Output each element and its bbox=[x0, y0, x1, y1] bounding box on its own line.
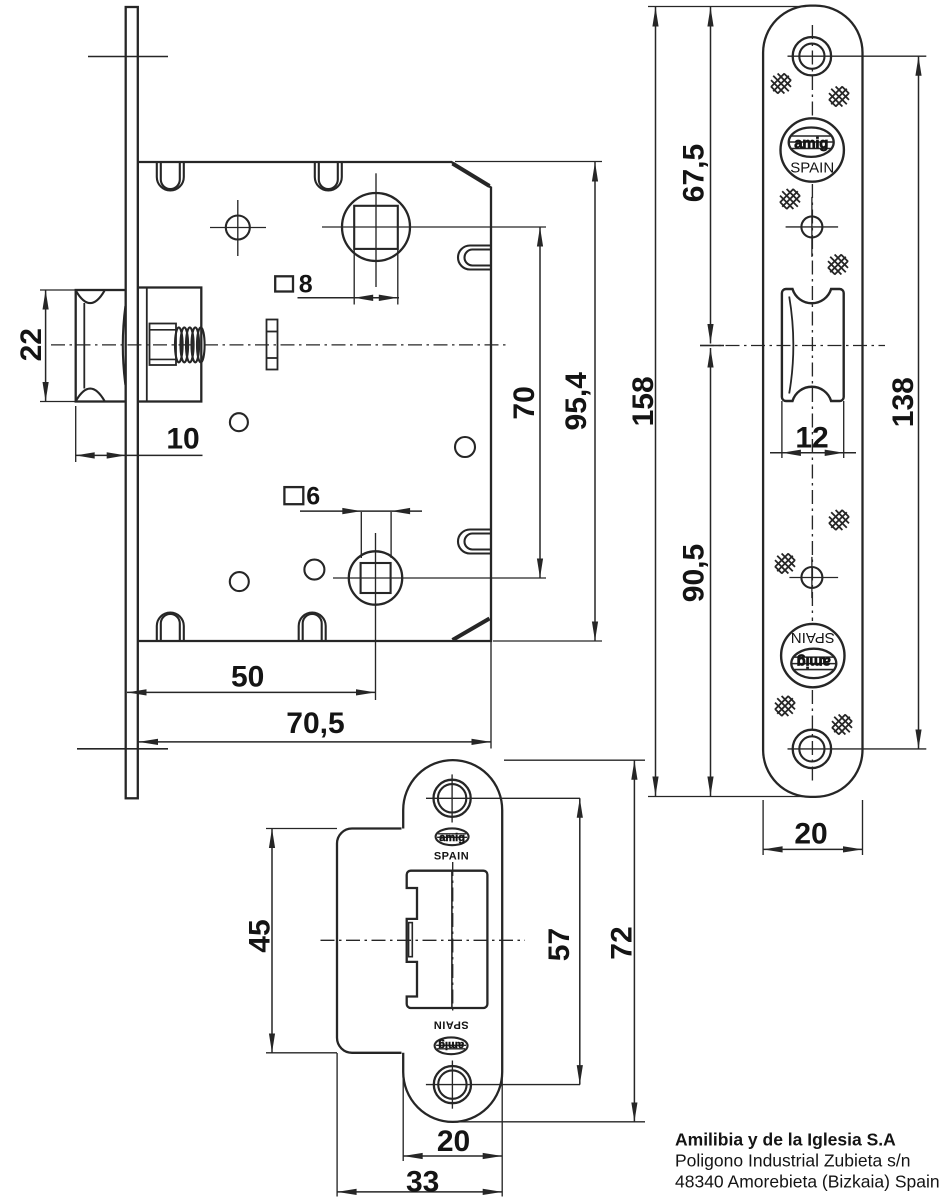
svg-text:70: 70 bbox=[508, 386, 541, 419]
svg-text:33: 33 bbox=[406, 1166, 439, 1199]
svg-text:70,5: 70,5 bbox=[286, 707, 344, 740]
svg-text:50: 50 bbox=[231, 660, 264, 693]
svg-text:20: 20 bbox=[437, 1125, 470, 1158]
svg-text:48340 Amorebieta (Bizkaia) Spa: 48340 Amorebieta (Bizkaia) Spain bbox=[675, 1172, 940, 1192]
svg-text:72: 72 bbox=[605, 926, 638, 959]
svg-text:158: 158 bbox=[627, 376, 660, 426]
svg-text:12: 12 bbox=[795, 422, 828, 455]
svg-text:90,5: 90,5 bbox=[677, 544, 710, 602]
svg-text:45: 45 bbox=[243, 919, 276, 952]
svg-text:10: 10 bbox=[166, 422, 199, 455]
svg-text:Amilibia y de la Iglesia S.A: Amilibia y de la Iglesia S.A bbox=[675, 1129, 896, 1149]
svg-text:Poligono Industrial Zubieta s/: Poligono Industrial Zubieta s/n bbox=[675, 1151, 910, 1171]
svg-text:8: 8 bbox=[299, 271, 313, 299]
svg-text:SPAIN: SPAIN bbox=[434, 851, 469, 863]
svg-text:SPAIN: SPAIN bbox=[433, 1019, 468, 1031]
svg-text:22: 22 bbox=[15, 328, 48, 361]
svg-text:95,4: 95,4 bbox=[560, 372, 593, 431]
svg-text:67,5: 67,5 bbox=[677, 144, 710, 202]
svg-text:57: 57 bbox=[543, 928, 576, 961]
svg-text:138: 138 bbox=[887, 377, 920, 427]
svg-text:6: 6 bbox=[306, 483, 320, 511]
svg-text:20: 20 bbox=[794, 817, 827, 850]
